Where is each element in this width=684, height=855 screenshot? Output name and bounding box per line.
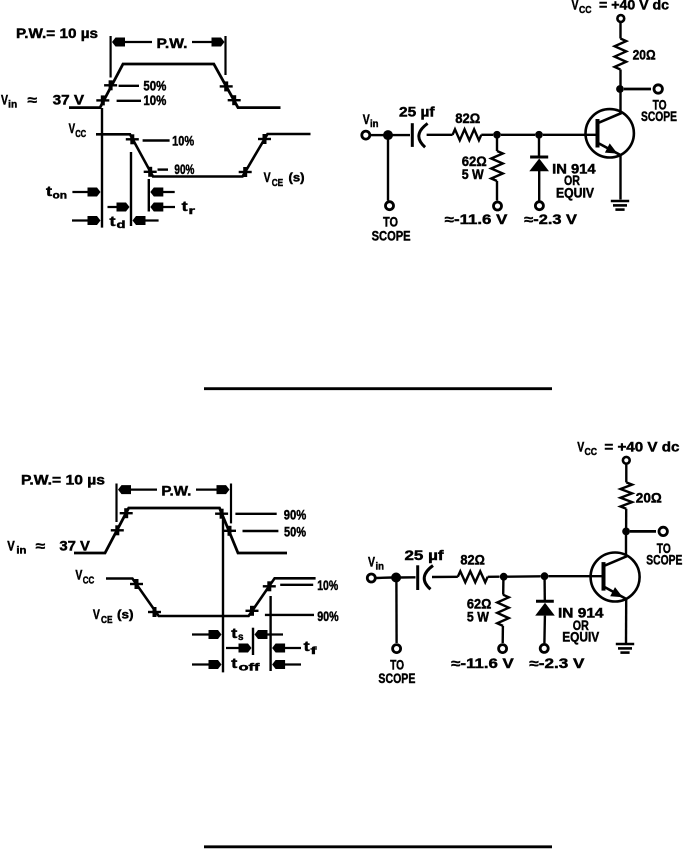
tick 10% on VCE rising edge (bottom) [263, 585, 276, 587]
svg-text:10%: 10% [317, 578, 338, 593]
wire collector junction to scope terminal (bottom circuit) [630, 530, 656, 533]
resistor 20 ohm RL (top circuit) [615, 39, 627, 70]
dimension line P.W. right boundary (top) [224, 36, 226, 75]
capacitor C1 25uF curved plate (top circuit) [419, 123, 428, 147]
waveform VCE collector trace (bottom) [106, 578, 316, 616]
arrow t-off right pointing left (bottom) [274, 663, 301, 665]
wire capacitor to resistor 82 ohm (top circuit) [427, 134, 453, 136]
waveform Vin input pulse trace (top) [69, 64, 281, 108]
wire junction down to scope terminal (top circuit) [387, 139, 389, 201]
leader dash 10% (bottom VCE) [280, 584, 313, 586]
transistor Q2 collector stroke (bottom circuit) [605, 556, 627, 566]
svg-text:t: t [110, 214, 117, 229]
wire resistor to node C (bottom circuit) [488, 576, 500, 578]
tick 10% on Vin falling edge (top) [228, 99, 241, 101]
wire junction up to resistor 20 ohm (top circuit) [619, 70, 621, 90]
svg-text:(s): (s) [289, 172, 305, 184]
svg-text:V: V [69, 121, 76, 136]
waveform VCE collector trace (top) [96, 134, 311, 177]
tick 10% on Vin rising edge (top) [96, 99, 109, 101]
wire node D to transistor base (bottom circuit) [549, 575, 602, 577]
wire emitter down to ground (bottom circuit) [625, 599, 628, 643]
scope terminal input branch (top circuit) [386, 202, 394, 210]
arrow t-r lower pointing left (top) [152, 206, 175, 208]
svg-text:SCOPE: SCOPE [372, 229, 411, 244]
svg-text:10%: 10% [172, 134, 194, 149]
svg-text:90%: 90% [284, 507, 307, 522]
svg-text:CC: CC [83, 575, 95, 586]
arrow t-d inner pointing right (top) [108, 206, 128, 208]
wire node D down to diode (bottom circuit) [543, 580, 546, 600]
resistor 20 ohm RL (bottom circuit) [621, 482, 633, 508]
svg-text:P.W.: P.W. [157, 36, 188, 51]
svg-text:t: t [231, 656, 238, 671]
tick 50% on Vin rising edge (bottom) [111, 529, 124, 531]
wire resistor to VCC terminal (top circuit) [619, 23, 621, 39]
separator rule bottom [204, 845, 552, 848]
svg-text:P.W.= 10 µs: P.W.= 10 µs [16, 26, 98, 41]
svg-text:CE: CE [272, 178, 284, 189]
wire resistor to node A (top circuit) [481, 134, 493, 136]
transistor Q1 circle (top circuit) [586, 109, 634, 157]
junction node input (top circuit) [383, 130, 393, 140]
arrow t-on pointing right (top) [72, 191, 98, 193]
arrow t-s right pointing left (bottom) [257, 633, 284, 635]
svg-text:V: V [1, 93, 8, 108]
svg-text:r: r [189, 206, 196, 217]
diode D1 IN914 cathode bar (top circuit) [530, 156, 548, 159]
tick 90% on VCE rising edge (top) [239, 171, 252, 173]
svg-text:V: V [75, 568, 82, 583]
svg-text:≈-11.6 V: ≈-11.6 V [451, 656, 513, 671]
svg-text:SCOPE: SCOPE [378, 671, 415, 686]
svg-text:≈-2.3 V: ≈-2.3 V [524, 212, 577, 227]
svg-text:25 µf: 25 µf [405, 548, 445, 563]
input terminal (top circuit) [362, 131, 370, 139]
node A 62-ohm branch junction (top circuit) [493, 131, 501, 139]
svg-text:P.W.= 10 µs: P.W.= 10 µs [21, 473, 105, 488]
svg-text:SCOPE: SCOPE [646, 552, 682, 567]
bias terminal -2.3V (top circuit) [535, 202, 543, 210]
capacitor C1 25uF straight plate (top circuit) [411, 123, 414, 147]
tick 10% on VCE falling edge (top) [126, 138, 139, 140]
transistor Q1 collector stroke (top circuit) [599, 113, 622, 123]
resistor 62 ohm 5W vertical (top circuit) [491, 151, 503, 181]
wire resistor 62 to bias terminal (bottom circuit) [502, 626, 505, 643]
wire node C to node D (bottom circuit) [508, 575, 541, 578]
wire collector up to junction (bottom circuit) [625, 531, 627, 557]
leader dash 10% (top input) [117, 100, 141, 102]
svg-text:V: V [93, 607, 100, 622]
scope terminal collector (top circuit) [654, 85, 662, 93]
transistor Q2 emitter arrowhead (bottom circuit) [610, 587, 623, 597]
svg-text:20Ω: 20Ω [636, 491, 662, 506]
svg-text:t: t [182, 199, 189, 214]
wire diode to bias terminal (top circuit) [538, 171, 540, 201]
wire input terminal to junction (bottom circuit) [377, 576, 393, 579]
supply terminal VCC (bottom circuit) [623, 457, 630, 464]
dimension line t-s right boundary (bottom) [252, 628, 254, 655]
svg-text:on: on [53, 190, 68, 201]
leader dash 90% (bottom input) [235, 513, 276, 515]
leader dash 90% (top VCE) [158, 168, 169, 170]
svg-text:5 W: 5 W [462, 167, 484, 182]
arrow t-r upper pointing left (top) [152, 191, 174, 193]
svg-text:82Ω: 82Ω [455, 111, 480, 126]
dimension line P.W. left boundary (bottom) [115, 484, 117, 523]
transistor Q1 emitter stroke (top circuit) [599, 144, 621, 156]
capacitor C2 25uF curved plate (bottom circuit) [424, 566, 433, 590]
wire collector junction to scope terminal (top circuit) [624, 88, 651, 91]
tick 50% on Vin rising edge (top) [104, 84, 117, 86]
arrow P.W. right (bottom) [196, 489, 228, 491]
wire junction to capacitor (bottom circuit) [400, 576, 416, 579]
dimension line t-r right boundary (top) [148, 179, 150, 212]
transistor Q2 circle (bottom circuit) [591, 553, 640, 602]
svg-text:37 V: 37 V [53, 93, 85, 108]
arrow t-d right outside pointing left (top) [135, 219, 159, 221]
leader dash 10% (top VCE) [143, 139, 170, 141]
svg-text:5 W: 5 W [467, 610, 489, 625]
arrow t-d left outside pointing right (top) [72, 219, 99, 221]
wire node C down to resistor 62 ohm (bottom circuit) [502, 580, 505, 595]
supply terminal VCC (top circuit) [617, 15, 624, 22]
svg-text:V: V [264, 170, 271, 185]
svg-text:= +40 V dc: = +40 V dc [599, 0, 670, 13]
svg-text:EQUIV: EQUIV [562, 630, 599, 645]
svg-text:50%: 50% [143, 79, 166, 94]
svg-text:37 V: 37 V [59, 538, 90, 553]
arrow t-off left pointing right (bottom) [192, 663, 220, 665]
svg-text:CC: CC [579, 5, 592, 16]
scope terminal collector (bottom circuit) [659, 527, 667, 535]
wire node B down to diode (top circuit) [538, 138, 540, 156]
wire emitter down to ground (top circuit) [619, 155, 621, 200]
leader dash 50% (bottom input) [243, 530, 279, 532]
wire capacitor to resistor 82 ohm (bottom circuit) [432, 576, 458, 579]
wire node A to node B (top circuit) [501, 134, 535, 136]
svg-text:V: V [368, 555, 375, 570]
svg-text:= +40 V dc: = +40 V dc [604, 440, 680, 455]
wire resistor 62 to bias terminal (top circuit) [496, 181, 498, 201]
wire collector up to junction (top circuit) [619, 89, 621, 114]
resistor 82 ohm horizontal (bottom circuit) [458, 571, 488, 582]
svg-text:≈-11.6 V: ≈-11.6 V [445, 212, 508, 227]
junction node collector (bottom circuit) [622, 528, 630, 536]
diode D1 IN914 triangle (top circuit) [529, 159, 549, 172]
tick 90% on VCE rising edge (bottom) [246, 610, 259, 612]
svg-text:(s): (s) [117, 610, 134, 622]
svg-text:t: t [304, 639, 311, 654]
wire junction up to resistor 20 ohm (bottom circuit) [625, 509, 628, 532]
tick 50% on Vin falling edge (bottom) [223, 530, 236, 532]
transistor Q2 emitter stroke (bottom circuit) [605, 587, 627, 599]
resistor 82 ohm horizontal (top circuit) [453, 129, 482, 140]
capacitor C2 25uF straight plate (bottom circuit) [416, 565, 419, 590]
wire resistor to VCC terminal (bottom circuit) [625, 465, 627, 483]
diode D2 IN914 cathode bar (bottom circuit) [536, 600, 554, 603]
wire junction to capacitor (top circuit) [392, 134, 410, 136]
tick 90% on Vin falling edge (bottom) [215, 513, 228, 515]
bias terminal -11.6V (top circuit) [494, 202, 502, 210]
svg-text:in: in [376, 562, 385, 573]
node D diode branch junction (bottom circuit) [541, 572, 549, 580]
bias terminal -11.6V (bottom circuit) [499, 645, 507, 653]
transistor Q1 emitter arrowhead (top circuit) [605, 143, 618, 153]
svg-text:in: in [16, 545, 26, 556]
dimension line P.W. left boundary (top) [109, 36, 111, 78]
separator rule between figures [204, 387, 552, 390]
bias terminal -2.3V (bottom circuit) [540, 644, 548, 652]
arrow P.W. right (top) [192, 41, 223, 43]
node C 62-ohm branch junction (bottom circuit) [500, 573, 508, 581]
waveform Vin input pulse trace (bottom) [74, 508, 287, 553]
tick 90% on VCE falling edge (top) [144, 171, 157, 173]
svg-text:EQUIV: EQUIV [556, 185, 594, 200]
svg-text:off: off [239, 662, 261, 673]
ground symbol (bottom circuit) [616, 643, 634, 646]
scope terminal input branch (bottom circuit) [393, 645, 401, 653]
svg-text:82Ω: 82Ω [460, 552, 485, 567]
svg-text:CC: CC [585, 447, 598, 458]
svg-text:CC: CC [75, 129, 86, 140]
svg-text:TO: TO [383, 215, 398, 230]
tick 90% on Vin rising edge (bottom) [120, 512, 133, 514]
svg-text:≈: ≈ [28, 93, 38, 108]
wire diode to bias terminal (bottom circuit) [543, 616, 546, 644]
arrow P.W. left (bottom) [120, 489, 157, 491]
wire input terminal to junction (top circuit) [371, 134, 384, 136]
arrow t-f right pointing left (bottom) [274, 647, 301, 649]
dimension line P.W. right boundary (bottom) [230, 484, 232, 524]
svg-text:V: V [577, 440, 584, 455]
leader dash 50% (top input) [119, 85, 139, 87]
svg-text:V: V [572, 0, 579, 13]
svg-text:P.W.: P.W. [161, 484, 191, 499]
arrow t-f left pointing right (bottom) [226, 647, 250, 649]
junction node input (bottom circuit) [391, 573, 401, 583]
node B diode branch junction (top circuit) [535, 131, 543, 139]
svg-text:SCOPE: SCOPE [641, 109, 677, 124]
svg-text:CE: CE [101, 615, 113, 626]
tick 50% on Vin falling edge (top) [220, 85, 233, 87]
dimension line t-f right boundary (bottom) [269, 596, 271, 671]
svg-text:≈-2.3 V: ≈-2.3 V [529, 656, 584, 671]
svg-text:90%: 90% [174, 162, 194, 177]
resistor 62 ohm 5W vertical (bottom circuit) [497, 595, 509, 626]
svg-text:in: in [8, 100, 17, 111]
tick 90% on VCE falling edge (bottom) [148, 611, 161, 613]
svg-text:V: V [7, 538, 15, 553]
wire junction down to scope terminal (bottom circuit) [395, 581, 398, 643]
svg-text:50%: 50% [284, 524, 306, 539]
svg-text:s: s [238, 632, 244, 643]
transistor Q1 base bar (top circuit) [596, 119, 600, 148]
svg-text:10%: 10% [143, 93, 166, 108]
node line t-off start vertical (bottom) [222, 518, 224, 672]
wire node A down to resistor 62 ohm (top circuit) [496, 138, 498, 151]
node line t-on start vertical (top) [101, 108, 103, 228]
svg-text:V: V [363, 112, 370, 127]
arrow t-s left pointing right (bottom) [192, 633, 220, 635]
svg-text:t: t [231, 626, 238, 641]
svg-text:20Ω: 20Ω [633, 48, 656, 63]
tick 10% on VCE falling edge (bottom) [130, 583, 143, 585]
transistor Q2 base bar (bottom circuit) [602, 562, 606, 591]
svg-text:in: in [370, 119, 379, 130]
tick 10% on VCE rising edge (top) [258, 138, 271, 140]
svg-text:d: d [117, 220, 126, 231]
arrow P.W. left (top) [114, 41, 152, 43]
svg-text:90%: 90% [317, 609, 339, 624]
ground symbol (top circuit) [611, 200, 629, 203]
leader dash 90% (bottom VCE) [265, 614, 314, 616]
junction node collector (top circuit) [616, 85, 624, 93]
svg-text:25 µf: 25 µf [399, 105, 435, 120]
dimension line t-d right boundary (top) [130, 152, 132, 226]
svg-text:≈: ≈ [36, 538, 46, 553]
diode D2 IN914 triangle (bottom circuit) [535, 603, 555, 616]
input terminal (bottom circuit) [367, 574, 375, 582]
wire node B to transistor base (top circuit) [543, 134, 596, 136]
